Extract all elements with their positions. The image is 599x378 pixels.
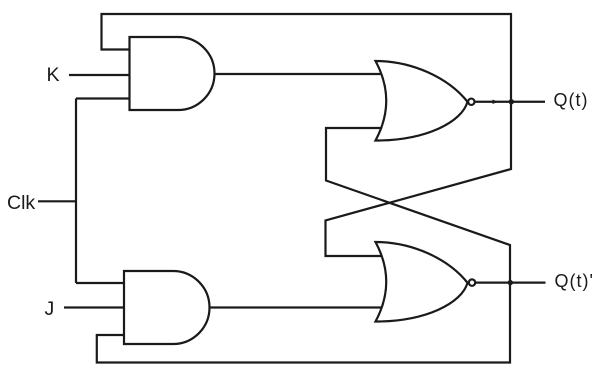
wire: J input to U2 pin 2: [64, 306, 125, 308]
wire: bottom feedback rail from node Q(t)' to AND gate U2 input 3: [97, 283, 510, 363]
and-gate U1 (K gate): [130, 37, 215, 110]
wire: Clk stub: [38, 200, 76, 202]
wire: Clk to U1 pin 3: [76, 97, 131, 99]
node Q(t)' junction dot: [508, 280, 513, 285]
nor-gate U4 (Q' latch): [376, 242, 468, 322]
wire: Clk vertical bus: [75, 99, 77, 284]
wire: cross-coupling from node Q(t) down to U4 input 1: [326, 102, 512, 256]
svg-text:Q(t): Q(t): [554, 90, 589, 110]
wire: cross-coupling from node Q(t)' up to U3 input 2: [326, 128, 510, 283]
and-gate U2 (J gate): [124, 271, 210, 344]
nor-gate U3 (Q latch): [376, 61, 468, 141]
wire: NOR U4 output to Q(t)': [475, 282, 546, 284]
wire: U2 output to NOR U4 input 2: [208, 306, 384, 308]
svg-text:Clk: Clk: [7, 192, 35, 214]
svg-text:Q(t)': Q(t)': [555, 271, 594, 291]
wire: U1 output to NOR U3 input 1: [213, 73, 384, 75]
arrowhead on Q(t) wire: [493, 100, 499, 105]
svg-text:J: J: [45, 298, 55, 320]
output bubble of U4: [469, 279, 475, 285]
wire: top feedback rail from node Q(t) to AND gate U1 input 1: [102, 14, 512, 102]
wire: NOR U3 output to Q(t): [475, 101, 546, 103]
svg-text:K: K: [47, 64, 60, 86]
node Q(t) junction dot: [509, 99, 514, 104]
wire: K input to U1 pin 2: [69, 74, 131, 76]
output bubble of U3: [468, 99, 474, 105]
wire: Clk to U2 pin 1: [76, 282, 125, 284]
